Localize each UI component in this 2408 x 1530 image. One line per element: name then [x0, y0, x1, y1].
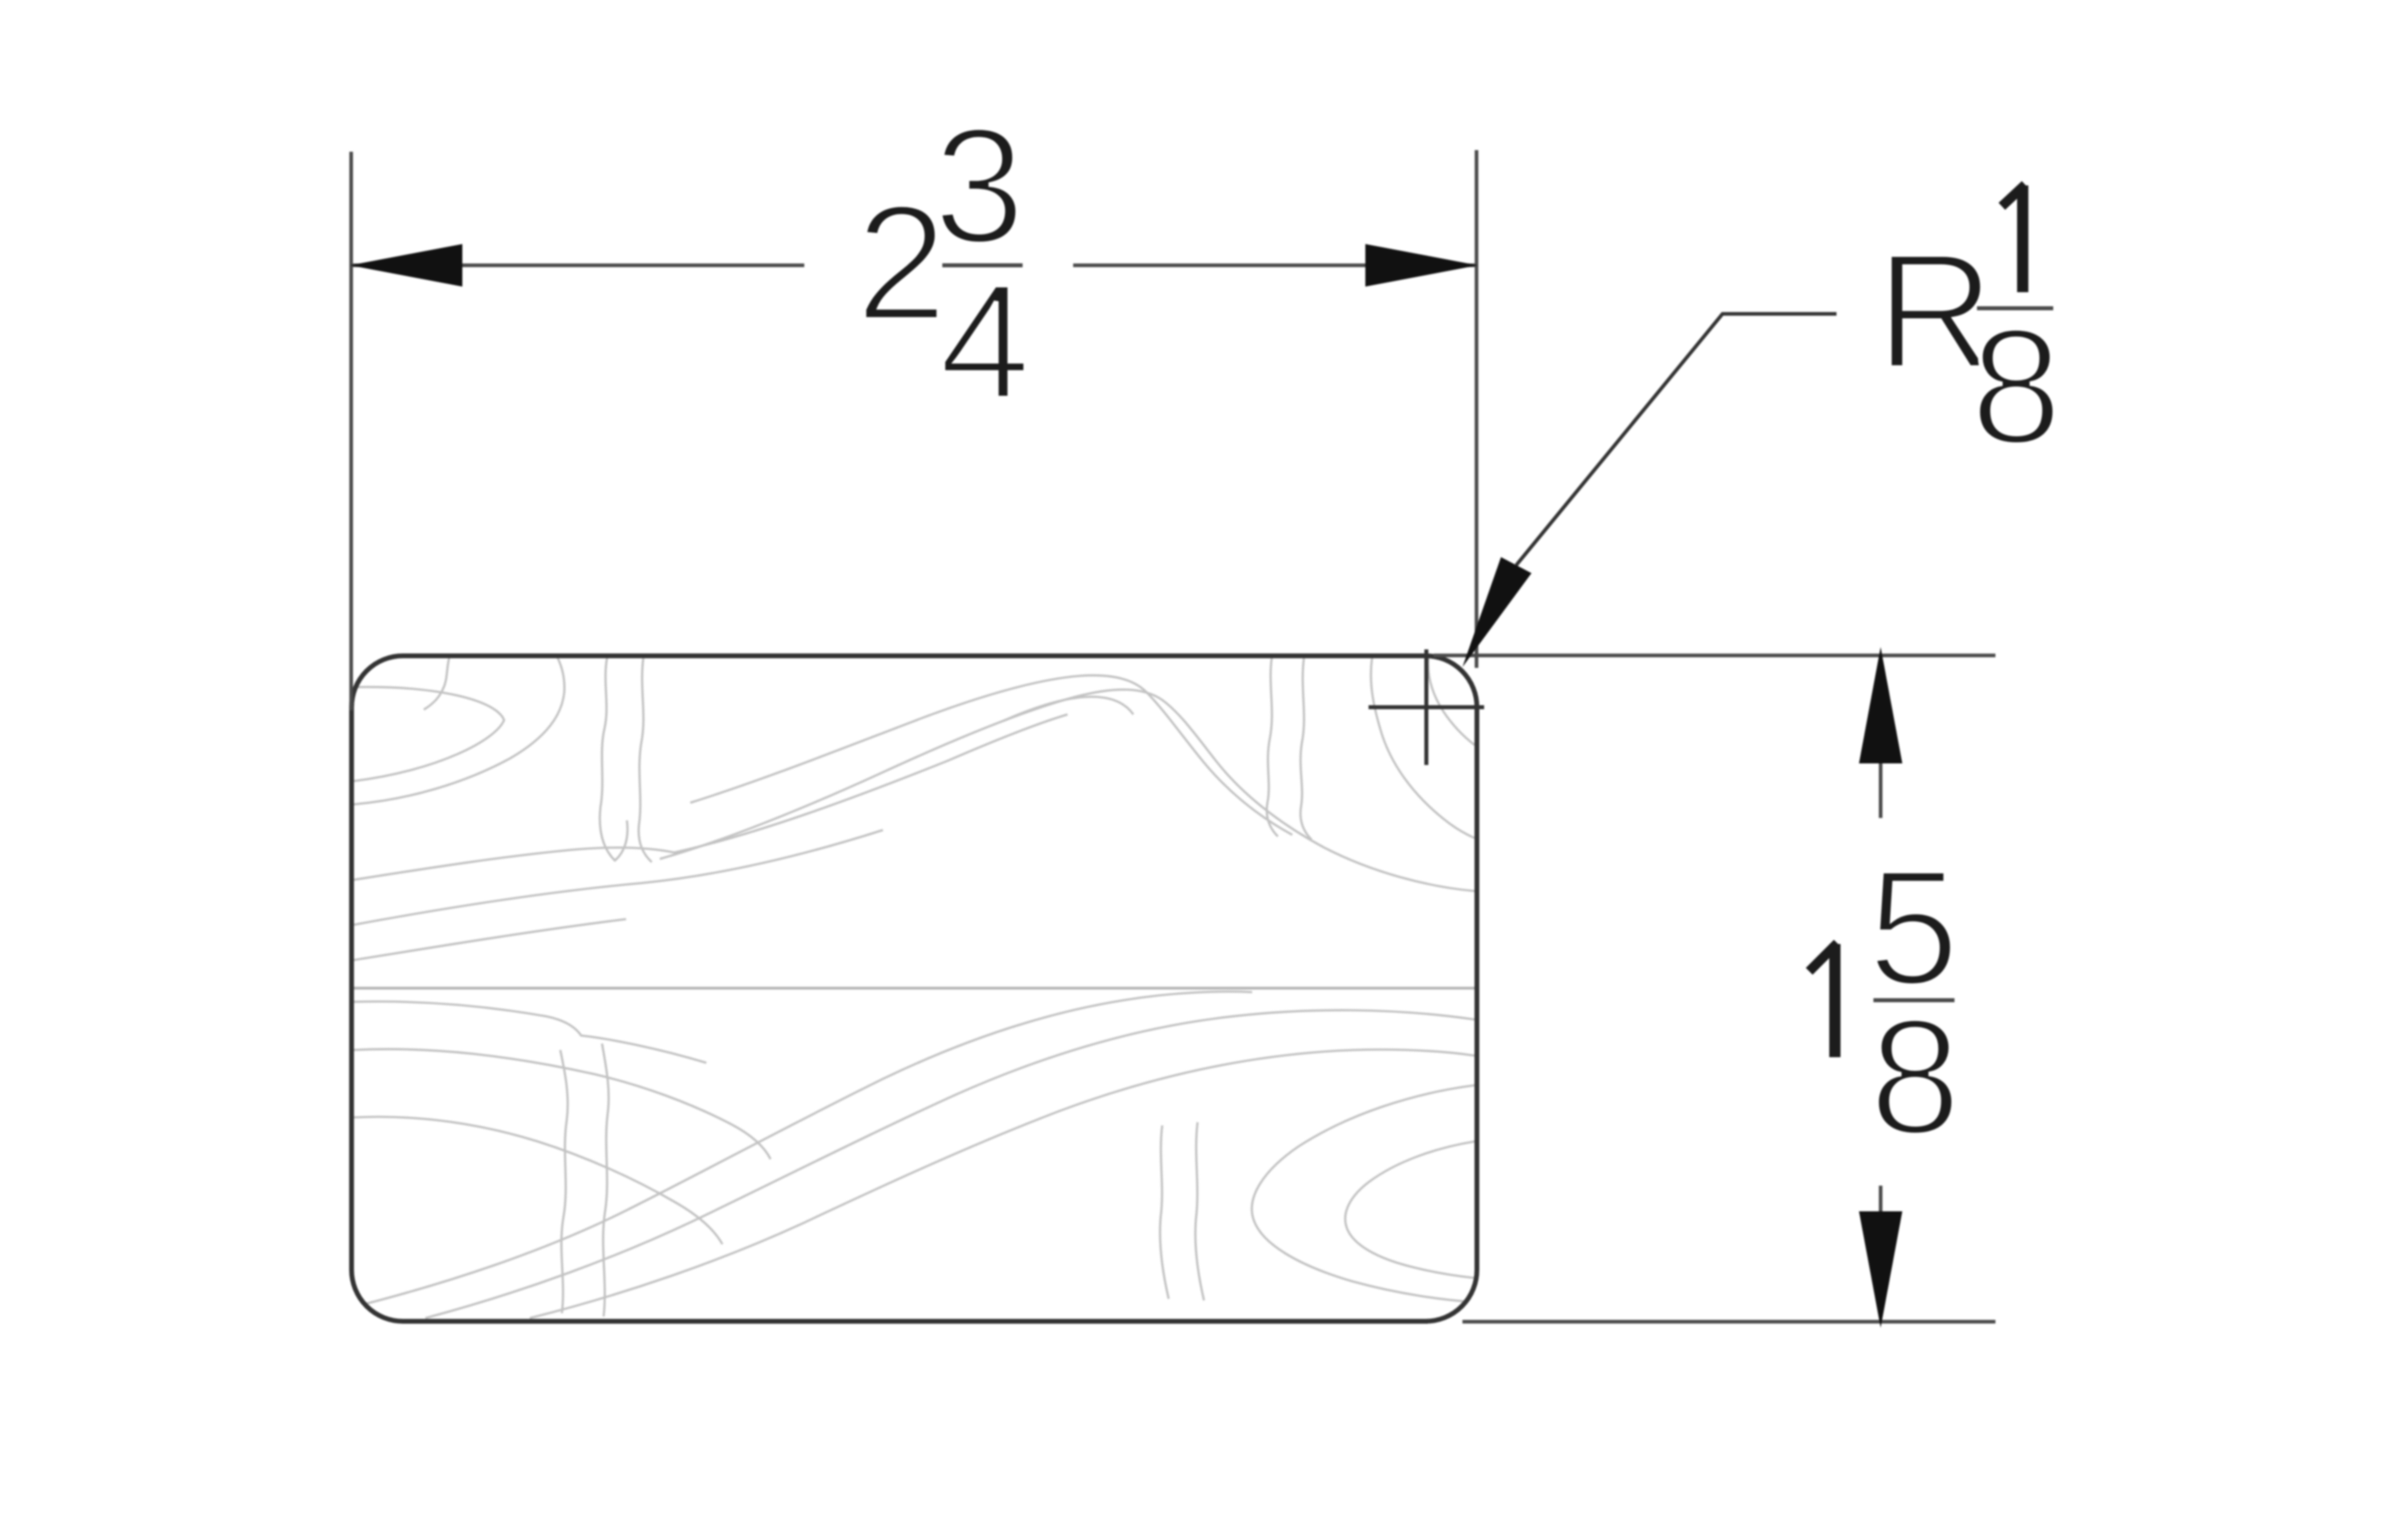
wood grain — [354, 655, 1474, 1318]
fraction bar 5/8 — [1873, 999, 1954, 1003]
radius leader arrowhead — [1462, 557, 1531, 667]
fraction bar 3/4 — [942, 263, 1023, 267]
radius center mark horizontal — [1369, 706, 1484, 710]
left extension line — [349, 152, 353, 710]
lumber cross-section outline — [352, 656, 1477, 1321]
up arrowhead — [1859, 647, 1902, 763]
fraction numerator 1 — [2002, 185, 2025, 292]
radius leader line — [1516, 314, 1837, 565]
svg-text:8: 8 — [1869, 985, 1961, 1169]
fraction bar 1/8 — [1977, 307, 2053, 311]
vertical dimension line bottom segment — [1879, 1186, 1883, 1214]
dimension text 1 — [1809, 943, 1837, 1057]
right extension line — [1474, 150, 1479, 668]
dimension line 2 3/4 left segment — [352, 263, 804, 267]
svg-text:4: 4 — [939, 250, 1031, 433]
right arrowhead — [1365, 244, 1478, 287]
radius center mark vertical — [1425, 649, 1429, 765]
glue seam line — [354, 987, 1474, 990]
bottom extension line (right dim) — [1462, 1320, 1995, 1324]
vertical dimension line top segment — [1879, 763, 1883, 818]
top extension line (right dim) — [1434, 653, 1995, 657]
svg-text:8: 8 — [1971, 295, 2062, 478]
down arrowhead — [1859, 1211, 1902, 1328]
dimension line 2 3/4 right segment — [1073, 263, 1476, 267]
left arrowhead — [350, 244, 462, 287]
